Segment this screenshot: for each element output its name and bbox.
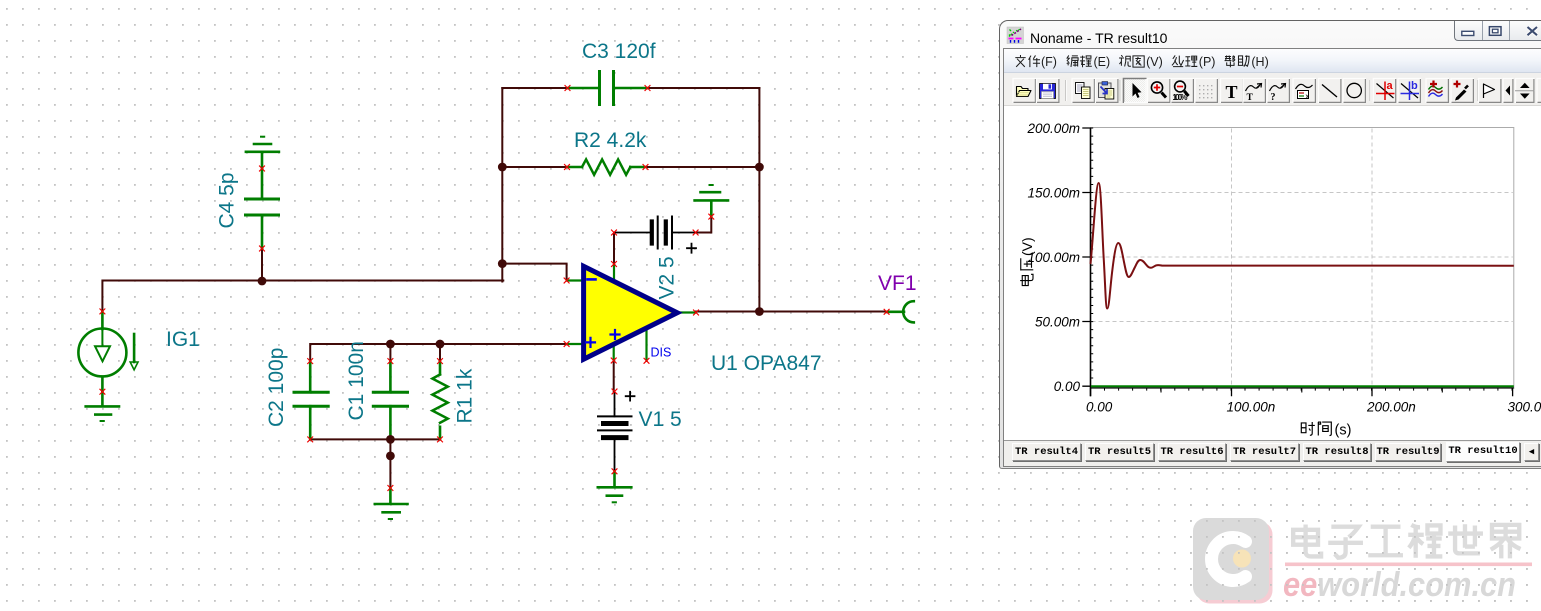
svg-text:IG1: IG1 (166, 328, 200, 351)
svg-text:C2 100p: C2 100p (265, 348, 288, 427)
svg-text:C1 100n: C1 100n (345, 341, 368, 420)
toolbar button: select cursor (pressed) (1123, 78, 1147, 103)
junction node A: feedback rail / input jog (498, 259, 507, 268)
junction node: C1 top (386, 340, 395, 349)
menu item bianji(E) (1067, 55, 1111, 69)
toolbar button: pick curve (1451, 78, 1475, 103)
battery V2 (614, 217, 696, 249)
resistor R2 (567, 159, 646, 174)
x-axis minor ticks (1091, 388, 1513, 391)
op-amp U1 triangle body (584, 266, 678, 359)
capacitor C4 (246, 152, 279, 249)
close button glyph (1528, 27, 1538, 35)
capacitor C1 (373, 361, 407, 439)
y-axis title dianya(V) (1019, 237, 1035, 285)
menu item chuli(P) (1172, 55, 1216, 69)
op-amp U1 V- supply pin lead (613, 342, 615, 361)
svg-text:DIS: DIS (651, 346, 672, 360)
op-amp U1 inner plus label (611, 330, 620, 339)
x-axis title shijian(s) (1301, 422, 1351, 438)
ground below C1 rail (375, 488, 408, 519)
battery V2 plus polarity mark (687, 244, 696, 253)
watermark underline (1285, 563, 1532, 567)
menu item bangzhu(H) (1225, 55, 1269, 69)
wire R2 right connection (646, 166, 760, 168)
op-amp U1 output pin lead (674, 311, 696, 313)
wire C1 top drop (389, 344, 391, 361)
junction node: bottom rail (386, 435, 395, 444)
wire V2 left terminal to op-amp V+ pin (613, 233, 615, 265)
op-amp U1 DIS pin lead (645, 326, 647, 361)
wire bottom rail C2-C1-R1 (310, 438, 440, 440)
toolbar separators (1065, 80, 1067, 101)
toolbar nav: page right button (clipped) (1537, 78, 1541, 103)
toolbar button: add curves (1426, 78, 1450, 103)
toolbar button: zoom in (1147, 78, 1171, 103)
battery V1 (598, 392, 632, 472)
toolbar button: save (1036, 78, 1060, 103)
wire V2 right terminal to ground stem (696, 217, 712, 233)
output terminal VF1 (887, 301, 914, 322)
svg-text:V1 5: V1 5 (639, 408, 682, 431)
menu item shitu(V) (1119, 55, 1163, 69)
transient response curve VF1 (1091, 183, 1514, 309)
junction node: R2 left rail (498, 163, 507, 172)
wire bottom rail to ground (389, 439, 391, 488)
op-amp U1 minus pin label (588, 278, 596, 281)
wire C4 bottom lead to main rail (261, 249, 263, 282)
svg-text:V2 5: V2 5 (656, 256, 679, 299)
junction node: output / feedback (755, 307, 764, 316)
toolbar button: draw line (1318, 78, 1342, 103)
toolbar button: annotate curve with text (1243, 78, 1267, 103)
wire non-inverting input rail (310, 344, 566, 361)
current source IG1 (78, 311, 138, 391)
pin connection markers (red x) (100, 86, 889, 491)
toolbar button: paste (1095, 78, 1119, 103)
toolbar button: open file (1013, 78, 1037, 103)
window title icon (1007, 27, 1024, 44)
junction node: ground drop (386, 452, 395, 461)
eeworld watermark logo (1193, 518, 1273, 604)
restore button glyph (1489, 27, 1501, 36)
wire R2 left connection (502, 166, 567, 168)
toolbar button: curve legend (1293, 78, 1317, 103)
chart plot frame (1091, 128, 1514, 389)
toolbar button: copy (1072, 78, 1096, 103)
battery V1 plus polarity mark (626, 392, 635, 401)
op-amp U1 V+ supply pin lead (613, 264, 615, 284)
toolbar button: grid (disabled) (1195, 78, 1219, 103)
x-axis major ticks (1091, 388, 1513, 397)
svg-text:U1 OPA847: U1 OPA847 (711, 352, 822, 375)
svg-text:C4 5p: C4 5p (216, 172, 239, 228)
watermark chinese title (1293, 524, 1520, 558)
toolbar button: annotate curve with query (1267, 78, 1291, 103)
wire C3 right connection (648, 87, 760, 89)
TINA result window (999, 20, 1541, 469)
capacitor C3 (568, 72, 648, 105)
svg-text:VF1: VF1 (878, 272, 917, 295)
ground above C4 (246, 137, 279, 152)
zero-level green trace (1091, 385, 1514, 387)
y-axis minor ticks (1091, 128, 1094, 378)
toolbar button: text label (1220, 78, 1244, 103)
junction node: R2 right rail (755, 163, 764, 172)
op-amp U1 plus pin label (586, 338, 595, 347)
op-amp U1 plus input pin lead (567, 343, 584, 345)
toolbar button: flag marker (1478, 78, 1502, 103)
chart horizontal gridlines (1092, 193, 1513, 322)
chart vertical gridlines (1232, 129, 1373, 388)
toolbar button: zoom 100% (1171, 78, 1195, 103)
capacitor C2 (294, 361, 328, 439)
y-axis major ticks (1082, 128, 1090, 386)
minimize button glyph (1462, 31, 1474, 35)
ground above V2 (695, 185, 728, 217)
schematic drawing (0, 0, 1000, 611)
wire op-amp V- pin to V1 plus terminal (613, 361, 615, 392)
toolbar nav: page left button (1503, 78, 1514, 103)
toolbar button: draw circle (1343, 78, 1367, 103)
chart y-axis line (1090, 128, 1092, 397)
wire IG1 top to inverting-input rail (102, 281, 503, 312)
toolbar button: cursor b (1398, 78, 1422, 103)
svg-text:R1 1k: R1 1k (454, 368, 477, 423)
wire op-amp output to VF1 (696, 311, 887, 313)
svg-text:C3 120f: C3 120f (582, 40, 656, 63)
svg-text:R2 4.2k: R2 4.2k (574, 129, 647, 152)
wire left feedback rail (C3/R2 left) (501, 88, 503, 265)
resistor R1 (432, 361, 447, 439)
toolbar nav: spin up/down buttons (1515, 78, 1535, 103)
wire jog from node A to op-amp minus pin (502, 264, 566, 282)
wire R1 top drop (439, 344, 441, 361)
wire right feedback rail to output node (758, 88, 760, 312)
junction node: R1 top (436, 340, 445, 349)
junction node: C4 / main rail (258, 277, 267, 286)
menu item wenjian(F) (1015, 55, 1057, 69)
ground below IG1 (86, 392, 119, 421)
ground below V1 (598, 471, 632, 502)
toolbar button: cursor a (1373, 78, 1397, 103)
op-amp U1 minus input pin lead (567, 279, 584, 281)
chart x-axis line (1091, 387, 1514, 389)
x-axis half-interval ticks (1161, 388, 1442, 393)
wire C3 left connection (502, 87, 567, 89)
